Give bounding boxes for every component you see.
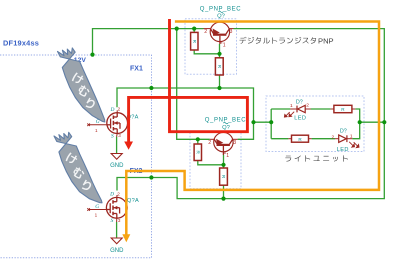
svg-text:D: D	[109, 192, 114, 198]
resistor R1a (base-emitter, block1)	[191, 32, 198, 50]
wire 12V right loop	[117, 29, 384, 199]
svg-text:GND: GND	[110, 163, 124, 169]
svg-text:DF19x4ss: DF19x4ss	[3, 39, 39, 48]
svg-text:3: 3	[118, 133, 121, 138]
junction R1a on 12V	[192, 27, 196, 31]
annotation arrow orange	[126, 22, 379, 235]
svg-text:1: 1	[290, 103, 293, 109]
resistor R2b (base series, block2)	[220, 168, 228, 185]
wire R1b bottom	[219, 75, 221, 88]
wire light unit left riser	[270, 109, 272, 139]
svg-text:LED: LED	[294, 116, 306, 122]
junction light unit right	[358, 120, 362, 124]
component box light unit dashed	[266, 96, 364, 152]
junction light unit left	[269, 120, 273, 124]
wire R2a top	[197, 139, 199, 144]
junction FX2 bus tap	[149, 175, 153, 179]
wire R2b bottom	[223, 185, 225, 198]
svg-text:GND: GND	[110, 248, 124, 254]
ground GND1	[111, 154, 122, 160]
svg-text:3: 3	[118, 218, 121, 223]
svg-text:1: 1	[350, 134, 353, 140]
wire emitter2 drop	[177, 29, 210, 140]
svg-text:FX1: FX1	[130, 65, 143, 72]
wire T2 base	[223, 155, 225, 168]
wire light unit tap	[254, 121, 272, 123]
junction R2b on bottom line	[221, 197, 225, 201]
transistor Q2 (mid PNP)	[210, 132, 238, 155]
junction collector2 node	[251, 120, 255, 124]
transistor Q1 (top PNP)	[204, 22, 234, 44]
mosfet Q?A lower	[87, 195, 127, 222]
svg-text:1: 1	[95, 213, 98, 218]
svg-text:2: 2	[117, 191, 120, 196]
bus DF19x4ss dashed blue polyline	[0, 55, 152, 258]
junction 12V bus tap	[90, 53, 94, 57]
wire bottom branch left	[271, 138, 288, 140]
svg-text:2: 2	[332, 134, 335, 140]
LED D?1 (top branch)	[284, 105, 310, 117]
svg-text:D: D	[110, 107, 115, 113]
wire bottom branch mid	[312, 138, 335, 140]
resistor R (bottom branch)	[288, 135, 311, 142]
svg-text:Q?A: Q?A	[127, 198, 139, 204]
wire 12V riser	[93, 29, 204, 55]
svg-text:LED: LED	[337, 147, 349, 153]
component box U2 (mid PNP block) dashed	[190, 131, 241, 189]
wire bottom branch right	[352, 122, 359, 139]
wire top branch mid	[311, 108, 331, 110]
svg-text:D?: D?	[340, 129, 347, 135]
svg-text:3: 3	[230, 29, 233, 35]
component box U1 (top PNP block) dashed	[185, 19, 237, 74]
junction emitter2 on 12V	[175, 27, 179, 31]
wire M1 source to gnd	[116, 137, 118, 154]
note light unit	[285, 155, 348, 161]
svg-text:1: 1	[226, 153, 229, 159]
junction base1 node	[217, 52, 221, 56]
svg-text:G: G	[95, 204, 99, 210]
svg-text:1: 1	[223, 43, 226, 49]
resistor R2a (base-emitter, block2)	[194, 144, 201, 161]
svg-text:1: 1	[95, 128, 98, 133]
junction 12V right	[382, 120, 386, 124]
wire R2a bottom to base node	[198, 161, 224, 165]
wire top branch right	[355, 109, 360, 122]
junction R1b on FX1 line	[217, 86, 221, 90]
svg-text:2: 2	[118, 107, 121, 112]
svg-text:2: 2	[208, 140, 211, 146]
wire top branch left	[271, 108, 290, 110]
resistor R1b (base series, block1)	[215, 58, 223, 75]
svg-text:PNP: PNP	[318, 36, 334, 45]
mosfet Q?A upper	[87, 110, 127, 136]
svg-text:3: 3	[233, 140, 236, 146]
svg-text:S: S	[111, 134, 114, 140]
svg-text:2: 2	[306, 103, 309, 109]
junction FX1 bus tap	[149, 86, 153, 90]
scribble smoke 1	[58, 48, 105, 122]
wire R1a top	[193, 29, 195, 33]
wire M2 source to gnd	[116, 222, 118, 238]
LED D?2 (bottom branch)	[335, 135, 359, 148]
junction R2a emitter	[196, 137, 200, 141]
svg-text:D?: D?	[296, 99, 303, 105]
junction base2 node	[221, 163, 225, 167]
svg-text:Q?: Q?	[217, 14, 226, 20]
annotation arrow red	[129, 19, 248, 142]
svg-text:Q_PNP_BEC: Q_PNP_BEC	[205, 117, 246, 123]
svg-text:2: 2	[204, 29, 207, 35]
wire R1a bottom to base node	[194, 50, 219, 54]
resistor R (top branch)	[331, 105, 356, 112]
scribble smoke 2	[54, 132, 102, 203]
svg-text:S: S	[111, 218, 114, 224]
wire right link to 12V	[360, 121, 385, 123]
ground GND2	[111, 238, 122, 244]
wire T1 base	[219, 44, 221, 58]
scribble smoke 1 text	[71, 72, 96, 110]
scribble smoke 2 text	[65, 152, 92, 192]
note digital transistor PNP	[240, 37, 317, 44]
wire FX1 net (drain1 to light unit)	[117, 88, 254, 139]
svg-text:Q?: Q?	[222, 125, 231, 131]
